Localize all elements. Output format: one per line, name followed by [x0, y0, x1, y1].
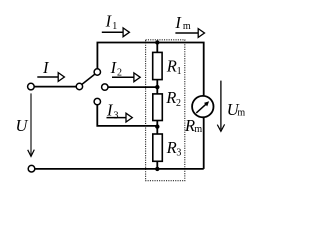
node top of divider: [155, 40, 159, 44]
wire top rail from I1 branch corner to right branch: [97, 43, 203, 96]
wire meter bottom to bottom rail: [203, 118, 205, 169]
svg-text:3: 3: [176, 148, 181, 159]
svg-text:3: 3: [114, 110, 119, 121]
resistor R2: [153, 94, 163, 121]
svg-text:R: R: [166, 138, 177, 157]
arrow I3: [107, 113, 133, 122]
arrow I (current into switch): [37, 73, 64, 82]
resistor R1: [153, 52, 162, 79]
wire divider vertical chain x=157.3: [156, 43, 158, 169]
switch contact I1 (upper): [94, 69, 100, 75]
arrow I1: [102, 28, 130, 37]
node R2-R3 junction: [155, 124, 159, 128]
switch contact I2: [102, 84, 108, 90]
svg-text:m: m: [237, 108, 245, 119]
node bottom of divider: [155, 167, 159, 171]
svg-text:U: U: [16, 116, 29, 135]
wire I3 contact down and right to divider: [97, 105, 157, 126]
arrow U (source voltage, downward): [28, 93, 35, 156]
arrow Im: [175, 29, 204, 38]
svg-text:1: 1: [177, 66, 182, 77]
resistor R3: [153, 134, 163, 161]
svg-text:2: 2: [176, 98, 181, 109]
svg-text:2: 2: [117, 68, 122, 79]
node R1-R2 junction: [155, 85, 159, 89]
wire I2 contact to divider: [108, 86, 157, 88]
svg-text:m: m: [194, 124, 202, 135]
switch pivot contact: [76, 83, 82, 89]
terminal lower left: [28, 165, 35, 172]
arrow Um (meter voltage, downward): [217, 81, 224, 132]
dashed box around R1 R2 R3 (divider network): [146, 40, 185, 181]
switch contact I3: [94, 98, 100, 104]
svg-text:m: m: [183, 21, 191, 32]
terminal upper left: [28, 83, 35, 90]
wire bottom rail: [35, 168, 204, 170]
meter Rm (galvanometer): [192, 96, 213, 117]
svg-text:1: 1: [112, 21, 117, 32]
svg-text:R: R: [166, 57, 177, 76]
svg-text:R: R: [165, 88, 176, 107]
arrow I2: [112, 73, 140, 82]
wire left input to switch pivot: [34, 86, 76, 88]
switch blade: [82, 74, 95, 84]
